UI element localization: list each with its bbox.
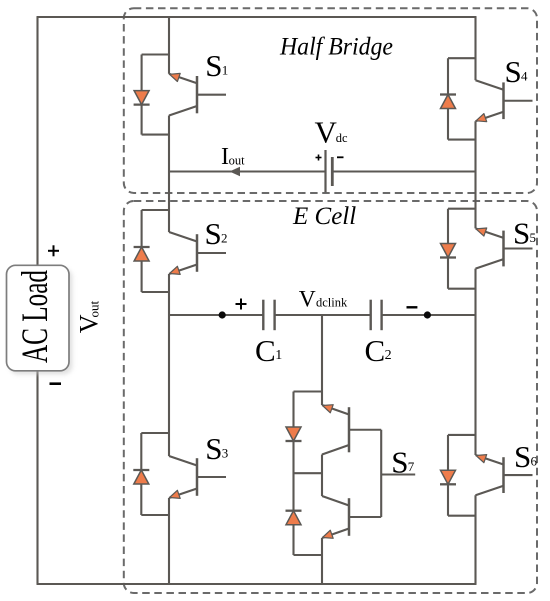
wire: S7 diode branch vertical [292,392,294,556]
wire: Iout rail right of battery [332,170,475,172]
svg-text:1: 1 [275,348,282,363]
battery - sign [337,156,344,158]
wire: left chain S3 to bottom rail [168,498,170,584]
wire: S7 diode branch middle link [294,472,323,474]
wire: dc-link bus middle segment [275,314,371,316]
svg-text:S: S [514,439,531,474]
free-wheeling diode of S2 [134,247,150,261]
svg-text:dclink: dclink [316,295,348,309]
svg-text:E Cell: E Cell [292,203,356,230]
switch cell S2 diode branch [142,210,169,292]
label S6 [514,439,538,474]
switch cell S6 diode branch [448,435,476,516]
wire: S7 gate tie vertical [380,430,382,517]
svg-text:S: S [513,216,530,251]
free-wheeling diode of S3 [133,470,149,484]
wire: S7 emitter to bottom link [321,538,323,555]
svg-text:AC Load: AC Load [15,270,56,363]
svg-text:S: S [205,216,222,251]
free-wheeling diode of S1 [134,91,150,105]
node: bus left junction dot [219,311,226,318]
wire: right chain S4 to S5 [474,121,476,228]
clamp diode D7a [286,427,302,441]
label S5 [513,216,536,251]
svg-text:S: S [205,48,222,83]
clamp diode D7b [286,511,302,525]
wire: Iout rail left of battery [169,170,326,172]
current arrow Iout [230,167,241,177]
svg-text:dc: dc [336,131,348,145]
wire: left chain S2 to S3 [168,274,170,456]
svg-text:2: 2 [221,231,228,246]
svg-text:out: out [87,301,102,318]
svg-text:Half Bridge: Half Bridge [279,34,393,61]
AC load box [7,265,70,371]
wire: S7 gate lead [381,473,415,475]
transistor S7b (lower) [322,496,381,538]
svg-text:2: 2 [385,348,392,363]
label C1 [255,333,282,368]
transistor S1 [169,73,226,115]
dashed box: E Cell region [124,201,537,593]
switch cell S4 diode branch [448,58,476,139]
label Vout [75,301,104,334]
wire: dc-link bus left segment [169,314,263,316]
wire: top rail [37,16,477,18]
transistor S5 [476,228,533,269]
free-wheeling diode of S4 [440,95,456,109]
bus + sign [236,299,247,310]
free-wheeling diode of S5 [440,244,456,258]
battery Vdc negative plate [331,157,334,186]
wire: left output wire lower segment [36,370,38,584]
label S2 [205,216,228,251]
svg-text:C: C [255,333,276,368]
svg-text:1: 1 [222,63,229,78]
svg-text:V: V [315,115,338,150]
svg-text:3: 3 [222,446,229,461]
wire: S7 diode branch top link [294,390,323,392]
label S3 [205,431,228,466]
svg-text:6: 6 [531,454,538,469]
AC load box shadow [10,269,73,375]
transistor S2 [169,232,226,274]
free-wheeling diode of S6 [440,470,456,484]
wire: right chain top rail to S4 [474,17,476,80]
wire: dc-link center drop to S7 [321,315,323,405]
node: bus right junction dot [424,311,431,318]
transistor S3 [169,456,226,498]
capacitor C1 [263,300,274,331]
transistor S7a (upper) [322,405,381,455]
wire: S7 common emitter link [321,455,323,497]
AC load - sign [50,382,62,385]
label S7 [391,445,415,480]
label I_out [221,144,245,170]
svg-text:out: out [229,153,246,167]
svg-text:S: S [505,54,522,89]
svg-text:V: V [299,287,316,313]
wire: left output wire upper segment [36,17,38,266]
wire: S7 bottom to bottom rail [321,555,323,584]
switch cell S5 diode branch [448,209,476,289]
switch cell S1 diode branch [142,55,169,135]
bus - sign [407,306,418,308]
battery Vdc positive plate [324,150,326,193]
wire: S1 collector wire from top rail [168,17,170,74]
wire: right chain S6 to bottom rail [474,495,476,584]
wire: dc-link bus right segment [382,314,476,316]
wire: S7 diode branch bottom link [294,554,323,556]
capacitor C2 [371,300,382,331]
label C2 [365,333,392,368]
svg-text:C: C [365,333,386,368]
label S1 [205,48,228,83]
svg-text:S: S [391,445,408,480]
label S4 [505,54,529,89]
switch cell S3 diode branch [141,433,169,515]
battery + sign [316,155,322,161]
svg-text:5: 5 [530,230,537,245]
svg-text:4: 4 [521,69,528,84]
wire: left chain S1-emitter to S2 [168,116,170,233]
label Vdclink [299,287,348,313]
svg-text:S: S [205,431,222,466]
transistor S4 [476,80,533,122]
dashed box: Half Bridge region [124,8,537,193]
label Vdc [315,115,348,150]
wire: right chain S5 to S6 [474,269,476,455]
wire: bottom rail [37,583,477,585]
transistor S6 [476,455,533,496]
AC load + sign [48,245,59,256]
svg-text:7: 7 [408,459,415,474]
